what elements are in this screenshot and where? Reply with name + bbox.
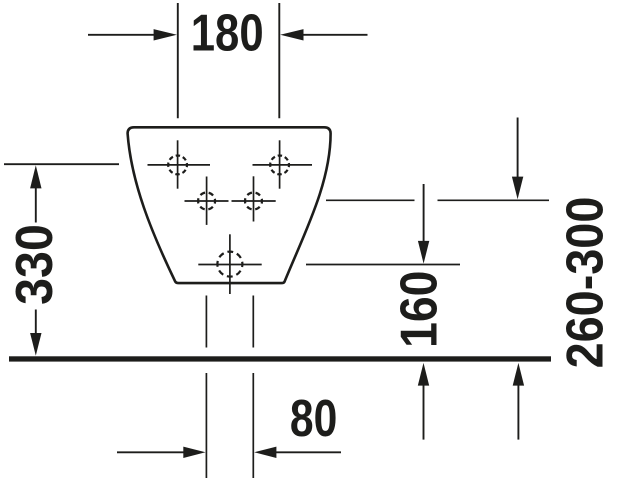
svg-text:80: 80 [290, 390, 337, 448]
supply line left lower [205, 373, 207, 478]
hole E crosshair horizontal [198, 264, 261, 266]
dim 160 down arrowhead [418, 241, 429, 264]
dim 260-300 down arrow shaft [517, 118, 519, 179]
hole E crosshair vertical [229, 234, 231, 294]
hole A crosshair vertical [177, 140, 179, 188]
svg-text:180: 180 [191, 5, 264, 62]
hole D dashed circle [245, 193, 262, 210]
dim 80 right arrowhead [254, 447, 276, 458]
bidet outline [128, 127, 331, 283]
connection level line y200 left segment [326, 199, 415, 201]
dim 80 right arrow shaft [275, 451, 341, 453]
hole A dashed circle [168, 156, 187, 175]
dim 260-300 up arrowhead [513, 363, 524, 386]
hole C dashed circle [198, 193, 215, 210]
dim 180 left arrowhead [154, 29, 177, 40]
floor line [9, 356, 551, 361]
dim 160 up arrow shaft [423, 385, 425, 440]
dim 160 down arrow shaft [423, 184, 425, 242]
hole B crosshair horizontal [253, 164, 313, 166]
dim 180 extension line left [177, 3, 179, 118]
dim 330 up arrowhead [30, 165, 41, 188]
dim 260-300 down arrowhead [512, 177, 523, 200]
svg-text:260-300: 260-300 [556, 197, 614, 369]
dim 180 extension line right [278, 3, 280, 118]
hole A crosshair horizontal [148, 164, 211, 166]
connection level line y200 right segment [438, 199, 550, 201]
hole E dashed circle [217, 252, 242, 277]
hole B dashed circle [270, 156, 289, 175]
dim 80 left arrow shaft [117, 451, 185, 453]
dim 180 left arrow shaft [88, 34, 156, 36]
supply line right lower [252, 373, 254, 478]
svg-text:160: 160 [390, 271, 448, 348]
dim 180 right arrowhead [280, 29, 303, 40]
hole D crosshair vertical [253, 176, 255, 221]
dim 330 lower shaft [35, 310, 37, 335]
dim 330 down arrowhead [30, 333, 41, 356]
supply line left upper [205, 296, 207, 348]
hole D crosshair horizontal [232, 200, 276, 202]
supply line right upper [252, 296, 254, 348]
dim 330 extension line [4, 163, 119, 165]
dim 330 upper shaft [35, 187, 37, 223]
hole C crosshair vertical [206, 177, 208, 225]
dim 180 right arrow shaft [301, 34, 368, 36]
hole C crosshair horizontal [185, 200, 229, 202]
dim 80 left arrowhead [183, 447, 205, 458]
svg-text:330: 330 [5, 224, 63, 305]
hole B crosshair vertical [279, 140, 281, 188]
drain level line y264 [306, 264, 460, 266]
dim 160 up arrowhead [418, 363, 429, 386]
dim 260-300 up arrow shaft [517, 385, 519, 440]
